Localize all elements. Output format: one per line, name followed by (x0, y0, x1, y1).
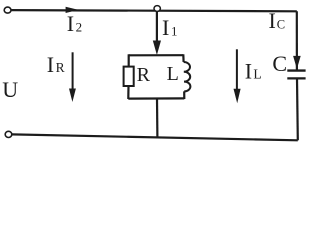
svg-text:C: C (277, 18, 285, 32)
RL loop box right lower (183, 91, 185, 99)
svg-text:1: 1 (171, 23, 178, 38)
svg-text:I: I (67, 11, 74, 36)
wire bottom rail (12, 134, 298, 140)
RL loop box left upper (128, 54, 130, 67)
current arrow IL (236, 49, 238, 90)
terminal top-left (4, 7, 11, 13)
node junction (154, 6, 160, 12)
current arrow IC on wire (293, 56, 301, 69)
capacitor C top plate (287, 69, 305, 71)
terminal bottom-left (5, 131, 12, 137)
wire top rail (11, 10, 297, 11)
svg-text:I: I (245, 58, 252, 83)
svg-text:C: C (272, 51, 287, 76)
current arrow I2 (66, 7, 79, 13)
current arrow IR (72, 52, 74, 90)
svg-text:R: R (56, 60, 65, 75)
svg-text:L: L (167, 63, 179, 85)
RL loop box top (129, 54, 184, 56)
svg-text:R: R (137, 64, 151, 86)
wire capacitor branch lower (296, 78, 299, 140)
svg-text:I: I (162, 15, 169, 40)
current arrow I1 (153, 41, 161, 56)
svg-text:I: I (47, 52, 54, 77)
wire capacitor branch upper (296, 11, 298, 70)
resistor R (124, 67, 134, 86)
RL loop box left lower (127, 86, 129, 99)
wire loop to bottom rail (156, 99, 159, 138)
svg-text:I: I (269, 8, 276, 33)
RL loop box right upper (182, 54, 185, 62)
wire I1 branch (156, 11, 158, 44)
capacitor C bottom plate (287, 77, 305, 79)
svg-text:L: L (253, 67, 261, 82)
svg-text:U: U (2, 77, 18, 102)
inductor L (184, 62, 191, 91)
RL loop box bottom (128, 97, 184, 99)
svg-text:2: 2 (76, 20, 83, 35)
